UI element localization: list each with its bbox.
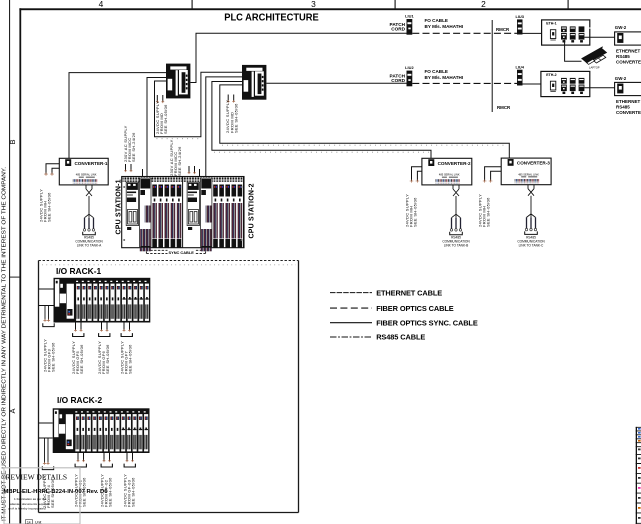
rack 1 supply tap 3 (121, 323, 132, 337)
converter CONVERTER-3 (501, 158, 551, 185)
svg-text:RS485: RS485 (616, 54, 630, 59)
sync cable U link (143, 248, 206, 254)
svg-text:RMCR: RMCR (497, 105, 511, 110)
svg-text:LINK TO TANK-B: LINK TO TANK-B (444, 244, 469, 248)
svg-text:LIU3: LIU3 (515, 14, 524, 19)
svg-text:BY M/s. MAHATHI: BY M/s. MAHATHI (425, 75, 464, 80)
LIU1 (407, 19, 413, 35)
svg-text:485 SERIAL LINK: 485 SERIAL LINK (518, 172, 539, 176)
svg-text:CORD: CORD (391, 78, 405, 83)
wires panel to rack 2 (39, 423, 53, 438)
zone tick top 2 (395, 0, 396, 9)
svg-text:FO CABLE: FO CABLE (425, 18, 448, 23)
FO cable dashed LIU1 to LIU3 (412, 32, 517, 34)
wire ETH-2 to GW-2 (584, 87, 614, 89)
zone letter divider (9, 277, 20, 278)
supply stub 2 (199, 169, 201, 177)
svg-text:GW-2: GW-2 (615, 76, 627, 81)
LIU4 (517, 70, 523, 86)
svg-text:485 SERIAL LINK: 485 SERIAL LINK (439, 173, 460, 177)
svg-text:ETHERNET: ETHERNET (616, 48, 641, 53)
rack 1 supply label 3 (119, 341, 132, 374)
RMCR boundary line (492, 20, 493, 112)
supply label CPU station 2 (169, 139, 182, 176)
supply tap CONVERTER-2 (412, 167, 422, 181)
legend ethernet cable (330, 292, 372, 294)
wire FOM-1 to CPU STATION-1 (147, 78, 166, 177)
rack 2 supply tap 3 (124, 453, 135, 467)
svg-text:LINK TO TANK-A: LINK TO TANK-A (77, 244, 102, 248)
svg-text:SYNC CABLE: SYNC CABLE (169, 250, 195, 255)
CPU rack outer frame (122, 177, 244, 248)
rack 1 supply tap 1 (73, 323, 84, 337)
legend rs485 cable (330, 336, 372, 338)
unit box (26, 520, 33, 524)
ETH-2 switch box (541, 71, 590, 96)
RS485 drop CONVERTER-2 (442, 185, 470, 248)
wire FOM-2 to LIU2 bus (266, 82, 406, 84)
svg-text:Unit: Unit (35, 521, 41, 524)
svg-text:CONVERTER-1: CONVERTER-1 (75, 161, 108, 166)
svg-text:ETHERNET: ETHERNET (616, 99, 641, 104)
svg-text:I/O RACK-1: I/O RACK-1 (56, 266, 101, 276)
supply label CPU station 1 (123, 125, 136, 162)
supply label CONVERTER-3 (477, 194, 490, 227)
CPU station 1 internals (126, 177, 183, 248)
svg-text:LINK TO TANK-C: LINK TO TANK-C (519, 243, 544, 247)
supply stub 1 (142, 169, 144, 177)
svg-text:CORD: CORD (391, 27, 405, 32)
svg-text:CONVERTER: CONVERTER (616, 110, 641, 115)
wire FOM-1 to CONVERTER-1 (69, 73, 166, 159)
svg-text:REVIEW DETAILS: REVIEW DETAILS (6, 473, 68, 482)
wire ETH-1 to GW-2 (584, 36, 614, 38)
ghost dots under wires (157, 139, 430, 153)
FO cable dashed LIU2 to LIU4 (412, 82, 517, 84)
sync cable label (168, 250, 196, 256)
wire FOM-2 to CPU STATION-2 (206, 77, 242, 177)
rack 2 left supply (45, 438, 49, 463)
GW-2 converter 2 (615, 82, 641, 95)
svg-text:3: 3 (311, 0, 316, 9)
rack 2 left supply label (42, 475, 55, 508)
rack 2 supply tap 1 (75, 453, 86, 467)
svg-text:ETH-2: ETH-2 (546, 73, 556, 77)
rack 2 supply label 2 (99, 474, 112, 507)
enclosure top edge dotted (39, 260, 299, 262)
supply tap CPU station 1 (124, 164, 132, 172)
sheet trim line left (9, 0, 10, 524)
svg-text:FIBER OPTICS CABLE: FIBER OPTICS CABLE (376, 304, 454, 313)
svg-text:RS485 CABLE: RS485 CABLE (376, 333, 425, 342)
svg-text:CONVERTER: CONVERTER (616, 60, 641, 65)
svg-text:1 Fabrication as per the: 1 Fabrication as per the (14, 497, 47, 501)
rack 2 supply tap 2 (101, 453, 112, 467)
sheet border left (19, 8, 21, 524)
wire FOM-1 to FOM-2 loop (155, 72, 243, 137)
LIU2 (407, 71, 413, 87)
CPU STATION-2 label (248, 183, 255, 238)
svg-text:B: B (8, 139, 17, 144)
wire FOM-2 to CONVERTER-2 (212, 82, 431, 159)
enclosure top ghost dots (42, 264, 296, 266)
svg-text:CPU STATION-2: CPU STATION-2 (248, 183, 255, 238)
svg-text:RS485: RS485 (616, 104, 630, 109)
svg-text:PLC ARCHITECTURE: PLC ARCHITECTURE (224, 12, 319, 23)
svg-text:FIBER OPTICS SYNC. CABLE: FIBER OPTICS SYNC. CABLE (376, 318, 478, 327)
svg-text:CONVERTER-3: CONVERTER-3 (517, 161, 550, 166)
wire FOM-1 to LIU1 bus (190, 33, 406, 82)
zone tick top 3 (568, 0, 569, 9)
supply label CONVERTER-1 (39, 189, 52, 222)
svg-text:CPU STATION-1: CPU STATION-1 (115, 179, 122, 234)
wires panel to rack 1 (39, 289, 54, 306)
svg-text:LIU1: LIU1 (405, 14, 414, 19)
CPU station 2 internals (187, 177, 244, 248)
rack 1 left supply (45, 306, 49, 320)
I/O rack 1 (54, 278, 151, 323)
svg-text:I/O RACK-2: I/O RACK-2 (57, 395, 102, 405)
svg-text:FO CABLE: FO CABLE (425, 69, 448, 74)
rack 1 supply label 2 (97, 341, 110, 374)
supply label CONVERTER-2 (404, 194, 417, 227)
rack 1 supply tap 2 (99, 323, 110, 337)
supply tap CONVERTER-1 (46, 164, 59, 174)
zone tick top 1 (192, 0, 193, 9)
legend fiber optics sync cable (330, 322, 372, 324)
svg-text:LAPTOP: LAPTOP (589, 66, 600, 70)
supply bracket FOM-2 (227, 95, 235, 103)
converter CONVERTER-1 (59, 158, 108, 185)
LIU3 (517, 19, 523, 34)
sheet border top (19, 8, 641, 10)
svg-text:485 SERIAL LINK: 485 SERIAL LINK (76, 173, 97, 177)
supply tap CONVERTER-3 (485, 167, 502, 181)
supply bracket FOM-1 (156, 95, 164, 103)
wire LIU3 to ETH-1 (523, 32, 542, 34)
svg-text:CONVERTER-2: CONVERTER-2 (438, 161, 471, 166)
wire ETH-1 to laptop (565, 40, 582, 62)
rack 1 left supply label (43, 339, 56, 372)
svg-text:2: 2 (481, 0, 486, 9)
svg-text:MBPL-EIL-HRRL-B224-IN-007 Rev.: MBPL-EIL-HRRL-B224-IN-007 Rev. D6 (4, 489, 108, 495)
svg-text:attested documents required: attested documents required (10, 502, 49, 506)
supply label FOM-1 (155, 101, 168, 134)
svg-text:BY M/s. MAHATHI: BY M/s. MAHATHI (425, 24, 464, 29)
supply tap CPU station 2 (188, 166, 196, 174)
svg-text:LIU4: LIU4 (515, 64, 524, 69)
wire LIU4 to ETH-2 (523, 83, 542, 86)
svg-text:A: A (8, 408, 17, 413)
review stamp box (4, 468, 80, 524)
wire FOM-2 to CONVERTER-3 (ethernet style) (220, 85, 510, 158)
laptop (582, 47, 608, 70)
rack 1 supply label 1 (71, 341, 84, 374)
svg-text:ETHERNET CABLE: ETHERNET CABLE (376, 288, 442, 297)
supply label FOM-2 (225, 100, 238, 133)
svg-text:GW-2: GW-2 (615, 25, 627, 30)
CPU STATION-1 label (115, 179, 122, 234)
RS485 drop CONVERTER-3 (517, 185, 545, 248)
svg-text:4: 4 (99, 0, 104, 9)
legend fiber optics cable (330, 307, 372, 309)
ETH-1 switch box (542, 20, 592, 45)
rack under-hang bits (140, 248, 151, 252)
title block sliver (636, 427, 641, 524)
I/O rack 2 (53, 408, 150, 453)
rack 2 supply label 1 (73, 474, 86, 507)
GW-2 converter 1 (615, 32, 641, 45)
PLC panel enclosure box (39, 261, 299, 513)
svg-text:on A is hereby incorporated: on A is hereby incorporated (8, 507, 46, 511)
F.O. module FOM-1 (166, 64, 190, 99)
svg-text:ETH-1: ETH-1 (546, 22, 556, 26)
CPU rack top terminal strip (123, 177, 244, 181)
svg-text:LIU2: LIU2 (405, 65, 414, 70)
F.O. module FOM-2 (242, 65, 266, 100)
svg-text:RMCR: RMCR (496, 27, 510, 32)
rack 2 supply label 3 (122, 474, 135, 507)
rack corner screws (123, 186, 125, 188)
RS485 drop CONVERTER-1 (75, 185, 103, 248)
svg-text:14: 14 (27, 520, 31, 524)
converter CONVERTER-2 (422, 158, 472, 185)
